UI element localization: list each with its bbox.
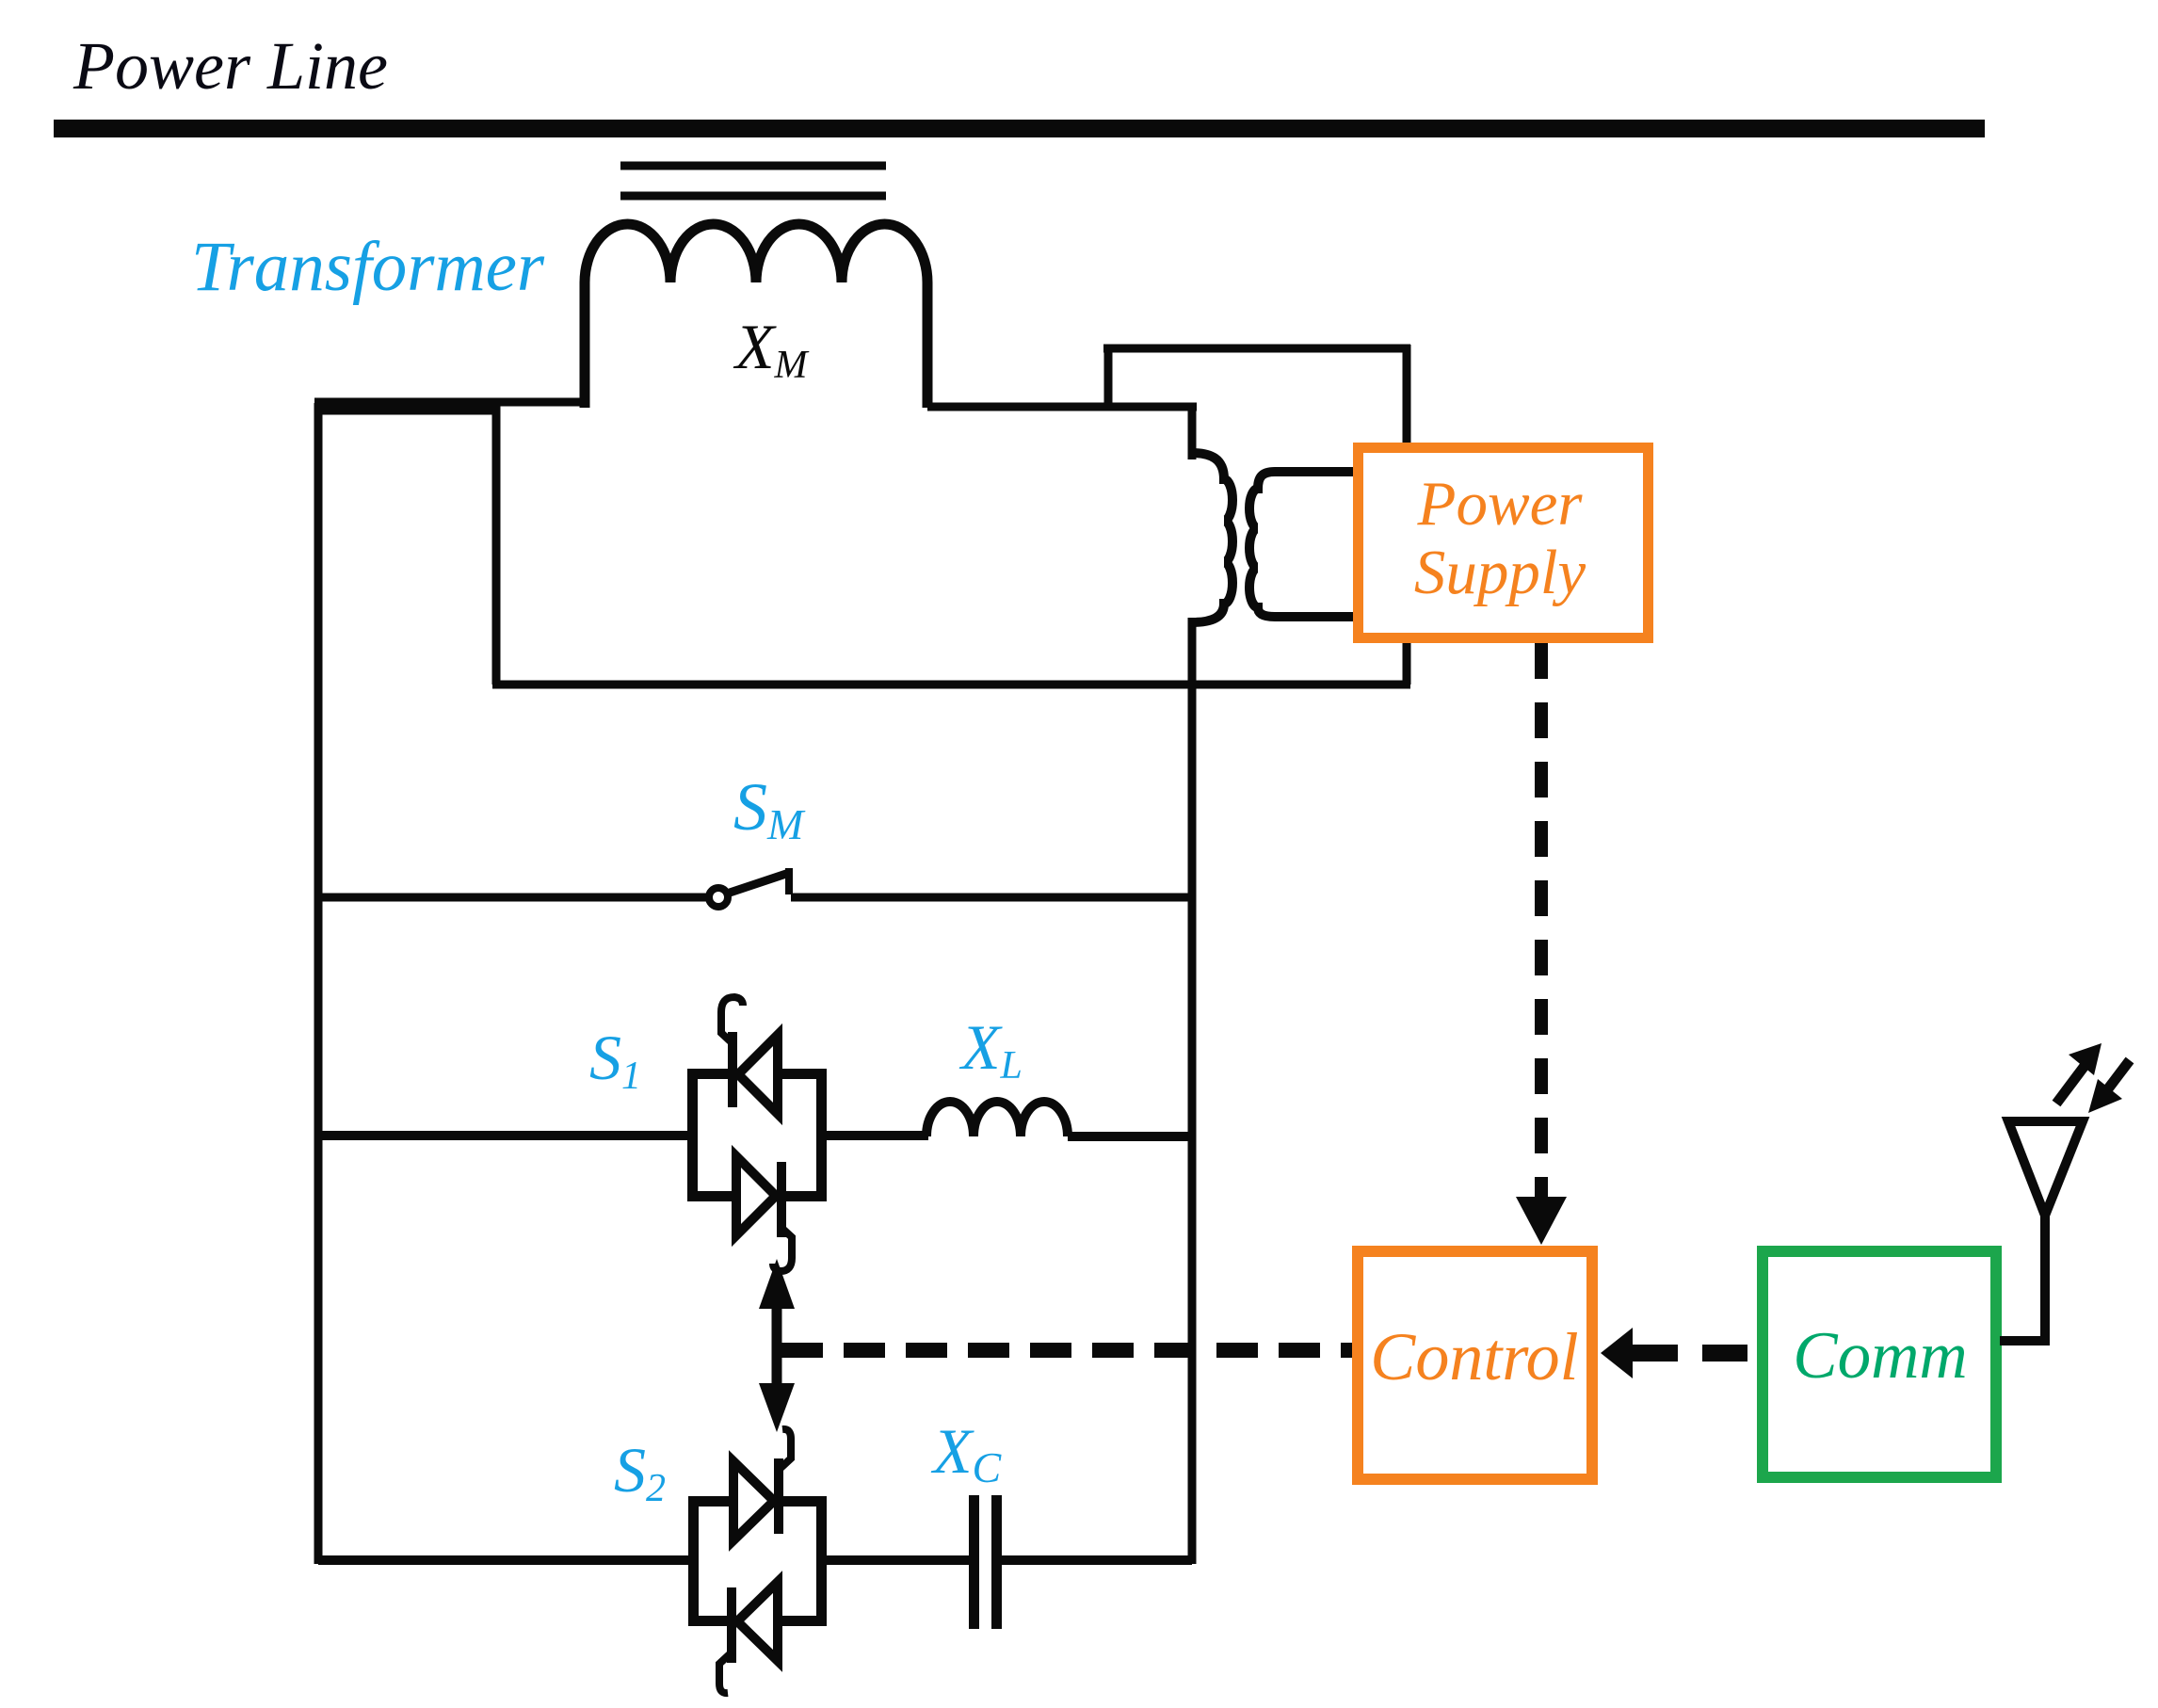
svg-text:Control: Control (1370, 1319, 1578, 1394)
wire stub to PS loop (1104, 345, 1113, 407)
thyristor S1a triangle (738, 1035, 778, 1114)
svg-text:Power: Power (1417, 469, 1584, 539)
wire top-right horizontal (927, 403, 1197, 411)
radio wave arrow out (2056, 1066, 2085, 1104)
dashed line Comm to Control (1633, 1345, 1757, 1362)
comm box (1763, 1251, 1996, 1477)
capacitor XC left plate (969, 1495, 979, 1629)
wire S1 row left (318, 1131, 690, 1140)
power line bus (54, 120, 1985, 137)
wire XC to right vertical (1001, 1555, 1192, 1565)
inductor XL (926, 1102, 1068, 1136)
arrowhead into Control right (1601, 1328, 1633, 1378)
switch SM contact tick (785, 868, 793, 894)
svg-text:Transformer: Transformer (191, 228, 545, 306)
thyristor S1b triangle (736, 1156, 776, 1235)
double arrow up head (759, 1259, 795, 1309)
double arrow down head (759, 1383, 795, 1432)
switch SM blade (730, 873, 789, 893)
PS transformer secondary winding (1249, 472, 1360, 617)
wire XL to right vertical (1068, 1132, 1192, 1141)
svg-text:Comm: Comm (1793, 1319, 1967, 1393)
PS transformer primary winding (1192, 453, 1232, 622)
control box (1358, 1251, 1592, 1479)
dashed gate control line horizontal (781, 1343, 1352, 1358)
thyristor S2a gate (779, 1429, 791, 1470)
thyristor S2a triangle (733, 1461, 774, 1540)
thyristor S2b triangle (737, 1582, 778, 1661)
thyristor S1b cathode bar (777, 1162, 786, 1237)
inductor XM (transformer primary winding) (585, 224, 927, 408)
wire left vertical (314, 403, 323, 1564)
thyristor S1a cathode bar (728, 1032, 737, 1107)
wire S2 to XC (823, 1555, 970, 1565)
arrowhead into Control top (1516, 1197, 1567, 1245)
switch SM wire left (318, 894, 708, 902)
switch SM pivot circle (709, 888, 728, 907)
thyristor S2a cathode bar (774, 1458, 783, 1534)
wire S2 row left (bottom wire) (318, 1555, 691, 1565)
wire right vertical upper (1188, 403, 1197, 459)
thyristor pair S2 box (694, 1502, 822, 1621)
transformer core line 1 (620, 162, 886, 170)
wire right vertical lower (1188, 618, 1197, 1564)
thyristor S2b cathode bar (727, 1587, 736, 1663)
svg-text:Supply: Supply (1414, 538, 1586, 607)
transformer core line 2 (620, 192, 886, 201)
wire top-left horizontal lower (314, 407, 496, 415)
wire S1 to XL (823, 1131, 928, 1140)
antenna triangle (2008, 1121, 2083, 1216)
capacitor XC right plate (991, 1495, 1002, 1629)
thyristor S1b gate (773, 1227, 792, 1271)
antenna lead (2000, 1216, 2045, 1341)
wire PS loop top (1103, 345, 1410, 353)
power supply box (1359, 448, 1649, 638)
thyristor pair S1 box (693, 1074, 822, 1197)
wire top-left horizontal (314, 398, 585, 407)
thyristor S2b gate (719, 1652, 732, 1693)
wire inner horizontal (492, 681, 1410, 689)
wire PS loop right vertical (1403, 345, 1411, 685)
thyristor S1a gate (721, 997, 743, 1044)
wire inner vertical (492, 403, 501, 685)
radio wave arrow in (2106, 1060, 2130, 1091)
svg-text:Power Line: Power Line (72, 28, 388, 104)
double arrow S1-S2 gates shaft (772, 1306, 782, 1386)
dashed control line PS to Control (1535, 643, 1548, 1198)
switch SM wire right (791, 894, 1192, 902)
